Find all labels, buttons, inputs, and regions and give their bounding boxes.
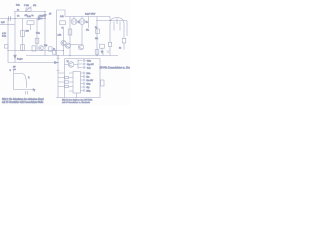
ground arrow xyxy=(101,48,103,53)
svg-text:Regler: Regler xyxy=(17,58,23,61)
resistor R9 xyxy=(68,29,72,35)
svg-text:4,7µ: 4,7µ xyxy=(87,68,91,70)
enclosure box bottom-middle xyxy=(65,59,101,98)
wire bus A xyxy=(14,11,45,13)
capacitor row 2 xyxy=(78,63,86,65)
resistor R1 xyxy=(27,21,34,25)
capacitor row 1 xyxy=(78,59,86,61)
wire vertical x58 down xyxy=(57,56,59,98)
svg-text:1n: 1n xyxy=(32,15,34,17)
resistor RL1 xyxy=(65,76,69,78)
svg-text:0,1µ: 0,1µ xyxy=(16,5,21,7)
svg-text:100: 100 xyxy=(26,31,29,33)
wire bus D xyxy=(65,16,110,18)
wire horizontal mid xyxy=(70,44,78,46)
wire vertical x82 xyxy=(81,24,83,44)
resistor R12 xyxy=(32,46,36,51)
svg-text:U: U xyxy=(10,70,12,72)
svg-text:ZF: ZF xyxy=(49,14,52,16)
curve xyxy=(14,74,27,88)
svg-text:1,5k: 1,5k xyxy=(58,35,62,37)
wire vertical x88 xyxy=(88,17,90,29)
wire vertical x97 xyxy=(96,17,98,56)
capacitor r6 xyxy=(84,89,85,92)
wire stub below R1 xyxy=(30,25,32,30)
resistor R4 xyxy=(35,38,39,43)
capacitor circle C1 xyxy=(73,17,75,19)
arrow marker xyxy=(14,55,17,58)
wire vertical x70 xyxy=(69,17,71,56)
svg-text:47n: 47n xyxy=(86,30,89,32)
wire vertical x22.5 xyxy=(22,19,24,51)
transistor Q2 xyxy=(65,43,70,48)
pin stubs to wire xyxy=(58,73,65,87)
component right edge xyxy=(101,80,105,86)
wire riser xyxy=(14,12,16,19)
wire vertical x37 xyxy=(36,19,38,51)
graph axes xyxy=(14,70,34,90)
IC U1 xyxy=(73,72,81,94)
resistor RL3 xyxy=(65,85,69,87)
svg-text:0,5V: 0,5V xyxy=(1,22,5,24)
svg-text:mit ZF-Verstärker und Demodula: mit ZF-Verstärker und Demodulator-Stufe xyxy=(2,101,44,104)
wire riser right xyxy=(109,17,111,21)
svg-text:1,5k: 1,5k xyxy=(60,16,64,18)
svg-text:100n: 100n xyxy=(87,61,91,63)
capacitor r5 xyxy=(84,86,85,89)
wire horizontal y50 xyxy=(8,50,64,52)
tube pin left xyxy=(109,34,111,43)
svg-text:4x: 4x xyxy=(17,10,19,12)
wire corner to bus D xyxy=(57,10,66,17)
wire lower-left out xyxy=(8,62,55,64)
resistor R11 xyxy=(95,50,99,55)
transistor Q4 xyxy=(68,62,74,68)
junction dots xyxy=(8,11,111,63)
transistor Q5 xyxy=(39,46,44,51)
arrow out xyxy=(55,61,58,64)
resistor R7 xyxy=(122,38,126,43)
axis arrow xyxy=(33,89,35,91)
svg-text:T2: T2 xyxy=(67,61,69,63)
svg-text:AA112: AA112 xyxy=(39,14,44,17)
svg-text:100µ: 100µ xyxy=(86,84,90,86)
small box K2 xyxy=(53,50,56,54)
tube V1 xyxy=(110,18,124,34)
IC pins right xyxy=(81,73,84,91)
svg-text:0,1µF 250V: 0,1µF 250V xyxy=(85,13,96,15)
svg-text:220µ: 220µ xyxy=(86,91,90,93)
capacitor C3 xyxy=(9,16,11,21)
small box F1 xyxy=(5,45,9,49)
svg-text:2,2k: 2,2k xyxy=(27,16,31,18)
svg-text:t: t xyxy=(34,90,35,93)
diode D3 xyxy=(44,15,47,18)
wire vertical x45 xyxy=(44,12,46,56)
svg-text:220: 220 xyxy=(44,45,47,47)
svg-text:47µ: 47µ xyxy=(86,87,89,89)
ladder wire xyxy=(77,60,79,69)
svg-text:BF-PD: Demodulator m. Diode: BF-PD: Demodulator m. Diode xyxy=(100,67,131,70)
wire vertical x63 xyxy=(63,29,65,56)
svg-text:0,1µ: 0,1µ xyxy=(2,36,7,38)
tick marks xyxy=(26,91,28,95)
capacitor circle C2 xyxy=(81,17,83,19)
ground rail bottom xyxy=(56,97,100,99)
resistor R6 xyxy=(108,42,111,46)
svg-text:0,1µ: 0,1µ xyxy=(36,33,41,35)
svg-text:2k: 2k xyxy=(119,48,121,50)
svg-text:47k: 47k xyxy=(25,15,28,17)
wire vertical x127 xyxy=(126,21,128,37)
wire bus E xyxy=(96,20,127,22)
svg-text:47k: 47k xyxy=(33,5,36,7)
svg-text:100n: 100n xyxy=(86,73,90,75)
tube pin right xyxy=(123,34,125,39)
capacitor r1 xyxy=(84,72,85,75)
svg-text:10µ 16V: 10µ 16V xyxy=(87,64,95,66)
capacitor r2 xyxy=(84,75,85,78)
wire bus B xyxy=(0,18,46,20)
svg-text:5µ: 5µ xyxy=(78,22,80,24)
svg-text:Rg: Rg xyxy=(95,27,97,29)
wire vertical with arrow xyxy=(14,19,16,63)
resistor R5 xyxy=(60,21,66,25)
ground bars xyxy=(107,51,110,53)
svg-text:Bild 2: Die Schaltung des einf: Bild 2: Die Schaltung des einfachen Empf… xyxy=(2,98,44,101)
wire vertical left xyxy=(7,19,9,63)
resistor R3 xyxy=(21,45,25,51)
component box G1 xyxy=(100,44,105,48)
svg-text:10k: 10k xyxy=(95,38,98,40)
wire vertical x56 xyxy=(56,10,58,56)
capacitor r4 xyxy=(84,82,85,85)
IC bottom wire xyxy=(76,93,78,98)
diode D2 xyxy=(38,17,42,20)
resistor R10 xyxy=(96,29,100,34)
IC pins left xyxy=(69,73,73,91)
capacitor row 3 xyxy=(78,66,86,68)
svg-text:Bild 3: Der Aufbau des NF-Teil: Bild 3: Der Aufbau des NF-Teils xyxy=(62,99,93,102)
svg-text:mit IC-Verstärker u. Endstufe: mit IC-Verstärker u. Endstufe xyxy=(62,101,91,104)
transistor Q3 xyxy=(78,44,84,50)
resistor RL2 xyxy=(65,81,69,83)
svg-text:22n: 22n xyxy=(86,77,89,79)
connection tick xyxy=(102,51,104,56)
rail y55 xyxy=(26,55,118,57)
svg-text:4,7k: 4,7k xyxy=(2,33,7,35)
svg-text:T1: T1 xyxy=(62,27,64,29)
junction ticks xyxy=(57,58,60,70)
svg-text:P 10k: P 10k xyxy=(24,5,29,7)
svg-text:5µ: 5µ xyxy=(86,22,88,24)
svg-text:10n 63V: 10n 63V xyxy=(86,80,93,82)
svg-text:1n: 1n xyxy=(53,49,55,51)
small box K1 xyxy=(49,47,52,51)
svg-text:Ue: Ue xyxy=(17,16,19,18)
svg-text:Q: Q xyxy=(28,77,30,79)
wire bus C xyxy=(0,24,15,26)
transistor Q1 xyxy=(61,40,66,45)
tube electrodes xyxy=(114,18,120,31)
resistor R2 xyxy=(21,31,25,37)
capacitor r3 xyxy=(84,79,85,82)
potentiometer P1 xyxy=(26,8,31,11)
